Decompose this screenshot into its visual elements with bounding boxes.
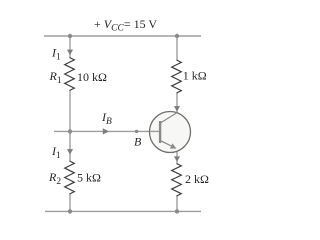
svg-text:2 kΩ: 2 kΩ: [185, 172, 209, 186]
node: ground left junction dot: [68, 209, 72, 213]
wire: right branch lower segment: [176, 196, 178, 211]
resistor R1 zigzag: [65, 58, 75, 91]
svg-text:I1: I1: [51, 46, 61, 63]
node: ground right junction dot: [175, 209, 179, 213]
current arrow IB: [103, 128, 109, 134]
svg-text:I1: I1: [51, 144, 61, 161]
node: base junction dot on left branch: [68, 129, 72, 133]
current arrow into collector: [174, 106, 180, 111]
wire: left branch middle segment: [69, 91, 71, 162]
current arrow I1 top: [67, 50, 73, 55]
wire: collector lead segment: [176, 93, 178, 113]
svg-text:R2: R2: [48, 170, 61, 187]
transistor Q1 collector line: [161, 113, 177, 123]
resistor R2 zigzag: [65, 161, 75, 194]
wire: top rail: [44, 35, 201, 37]
current arrow I1 lower: [67, 149, 73, 154]
svg-text:B: B: [134, 135, 142, 149]
resistor RC 1k zigzag: [172, 60, 182, 93]
wire: bottom rail: [45, 210, 201, 212]
svg-text:R1: R1: [49, 69, 62, 86]
svg-text:IB: IB: [101, 110, 112, 127]
resistor RE 2k zigzag: [172, 164, 182, 197]
transistor Q1 emitter arrowhead: [170, 143, 177, 148]
wire: base wire inside transistor circle: [150, 130, 160, 132]
transistor Q1 body circle: [150, 112, 191, 153]
transistor Q1 emitter line: [161, 141, 173, 147]
svg-text:5 kΩ: 5 kΩ: [77, 171, 101, 185]
wire: left branch upper segment: [69, 36, 71, 58]
wire: emitter lead segment: [176, 151, 178, 163]
wire: base wire to transistor: [54, 130, 151, 132]
current arrow out of emitter: [174, 156, 180, 161]
wire: left branch lower segment: [69, 194, 71, 211]
svg-text:1 kΩ: 1 kΩ: [183, 69, 207, 83]
wire: right branch upper segment: [176, 36, 178, 60]
svg-text:+ VCC= 15 V: + VCC= 15 V: [94, 17, 157, 34]
node B dot: [135, 130, 138, 133]
transistor Q1 base bar: [159, 121, 161, 143]
node: VCC right junction dot: [175, 34, 179, 38]
node: VCC left junction dot: [68, 34, 72, 38]
svg-text:10 kΩ: 10 kΩ: [77, 70, 107, 84]
